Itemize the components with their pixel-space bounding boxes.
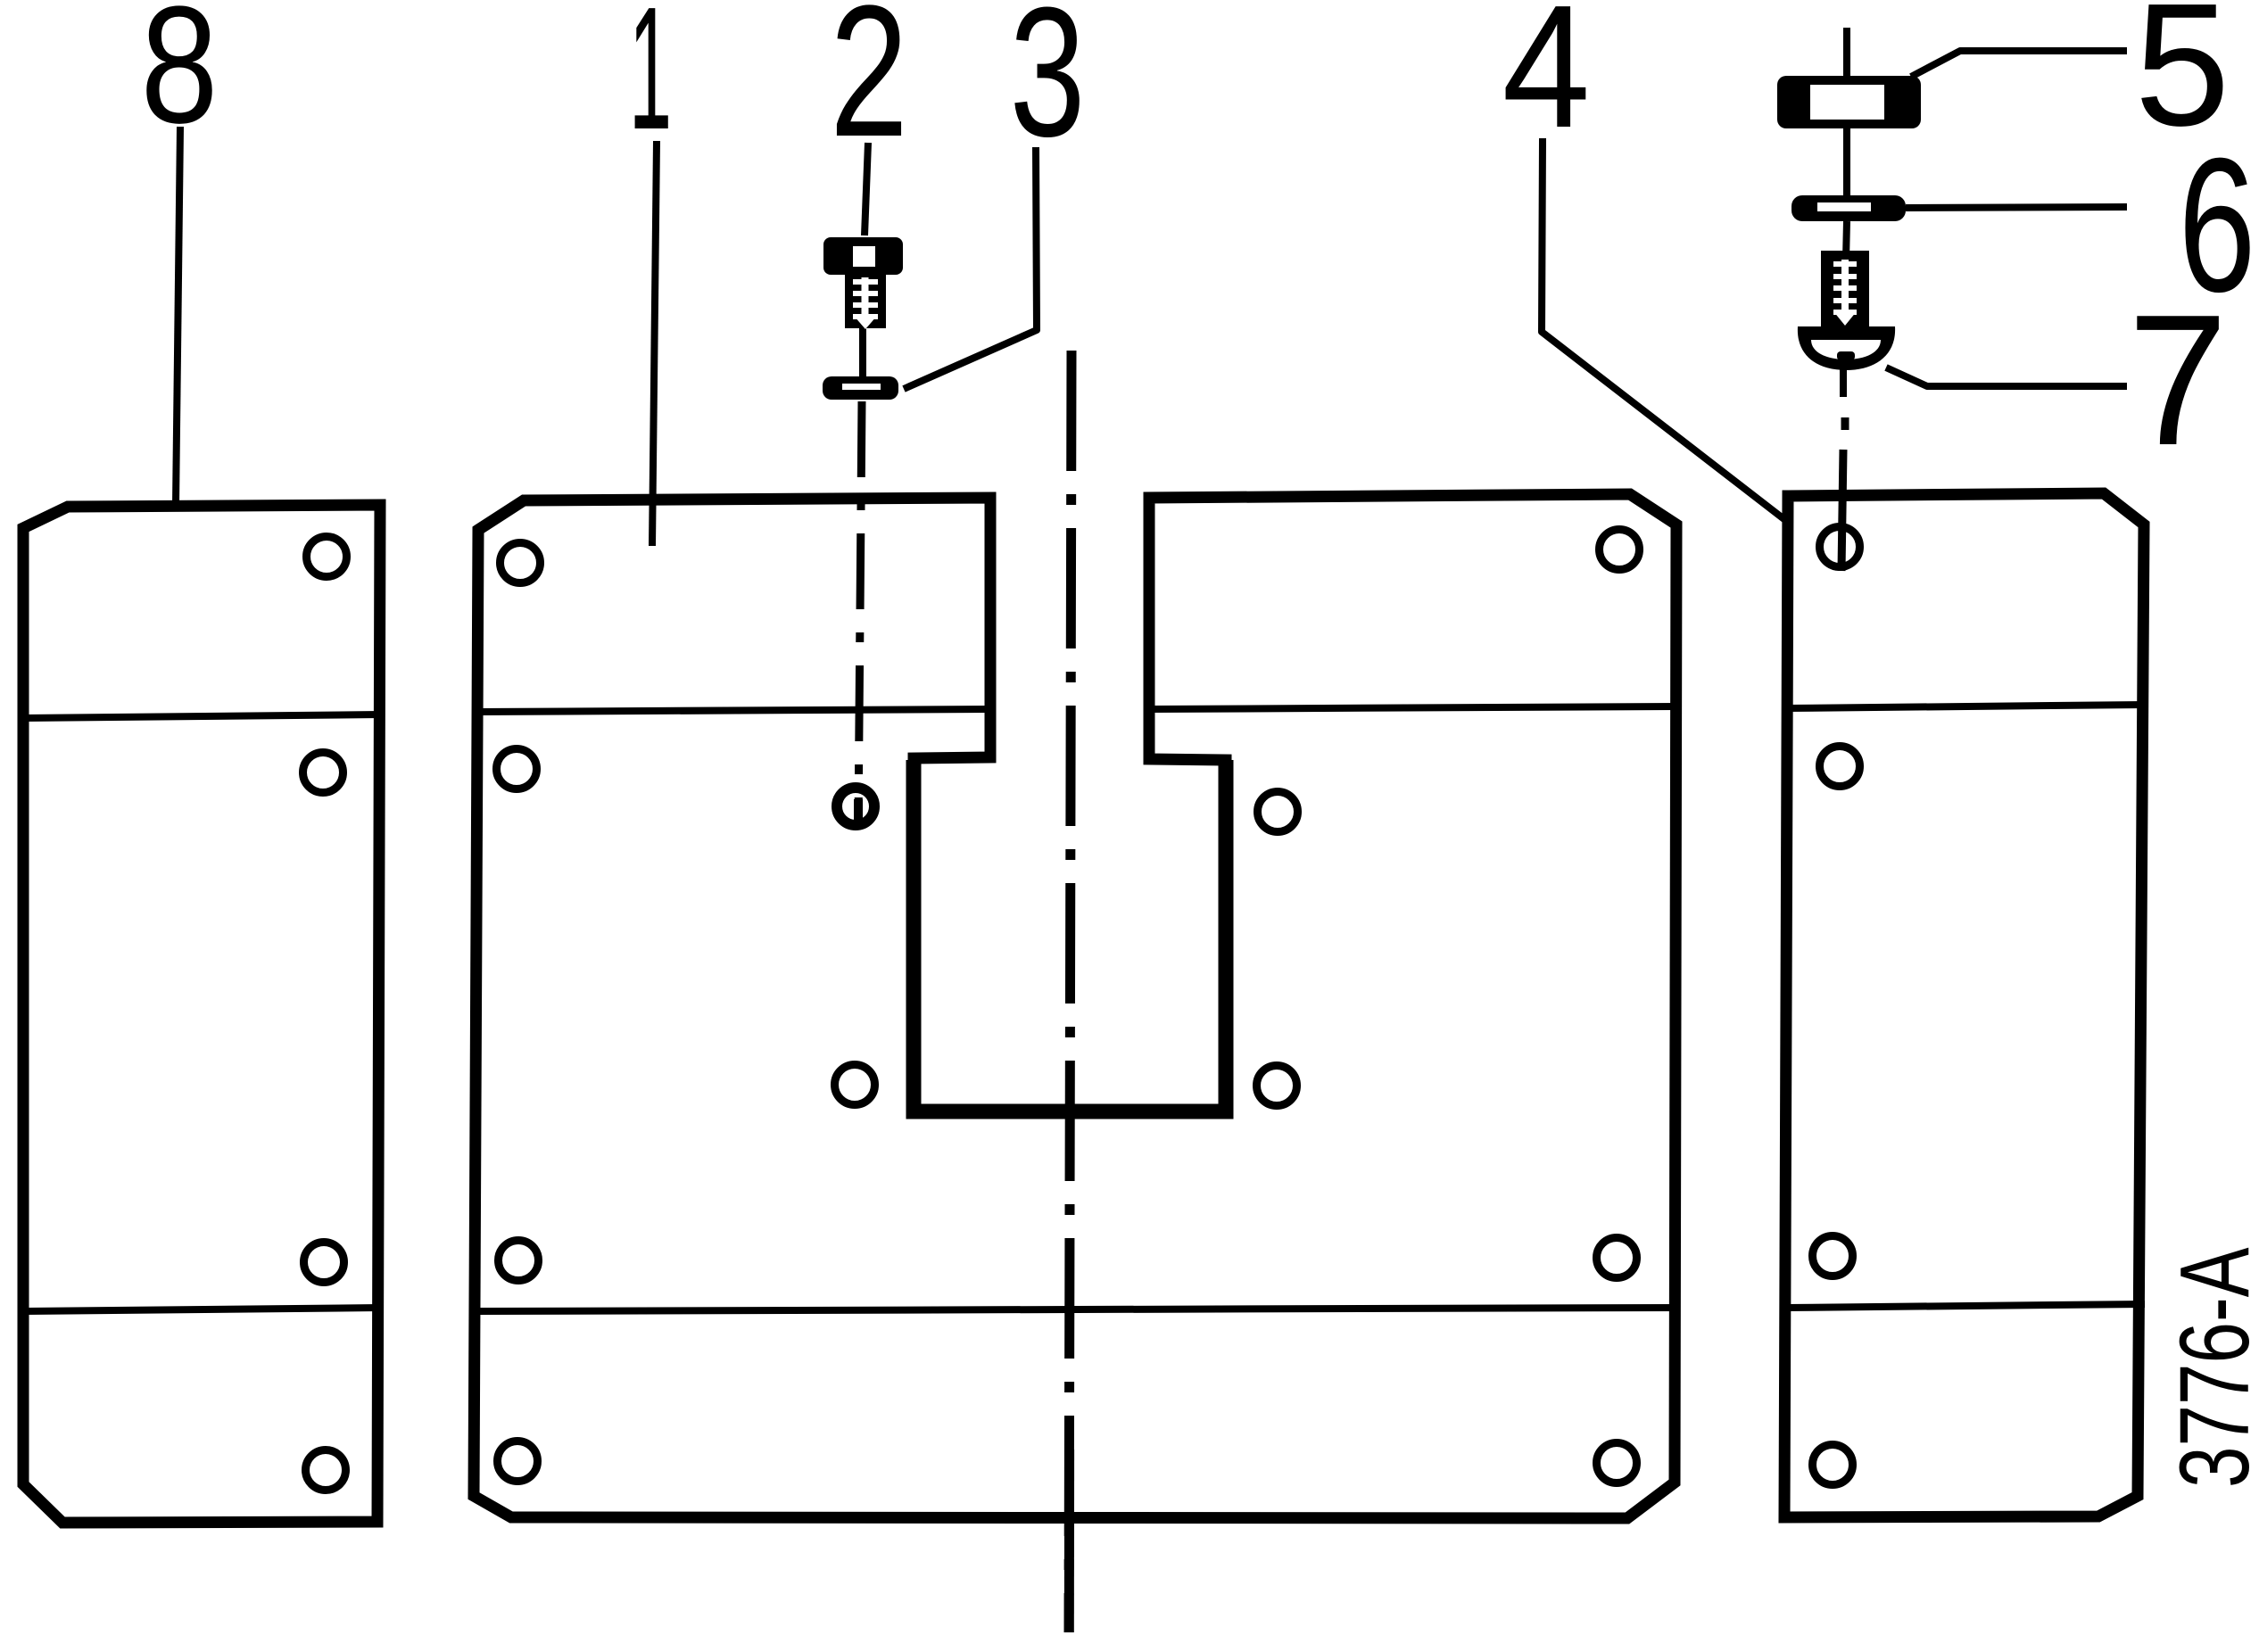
screw 7 axis dot: [1841, 417, 1849, 430]
screw 7 axis upper solid: [1843, 28, 1850, 76]
svg-text:3: 3: [1010, 0, 1086, 175]
washer 3: [823, 376, 898, 400]
svg-text:8: 8: [141, 0, 219, 158]
centre line (axis of symmetry): [1069, 351, 1072, 1632]
screw 7 axis nib below head: [1840, 368, 1847, 397]
plate 1 hole mid-left: [497, 749, 537, 789]
plate 1 (centre plate with keyhole slot) outline: [474, 494, 1676, 1518]
screw 2 shank: [845, 274, 886, 328]
plate 1 hole lower-left bottom: [498, 1441, 538, 1482]
plate 8 hole upper-middle: [303, 753, 343, 793]
plate 1 threaded hole slot mark: [854, 799, 863, 822]
screw 7 shank: [1821, 251, 1869, 326]
leader line for 7: [1886, 368, 2127, 386]
svg-text:1: 1: [629, 0, 672, 166]
plate 1 threaded hole for screw 2: [837, 788, 874, 825]
plate 4 hole lower-middle: [1813, 1236, 1853, 1276]
plate 1 hole below slot left: [835, 1065, 875, 1105]
svg-text:3776-A: 3776-A: [2160, 1247, 2259, 1488]
plate 1 lower bend line: [476, 1308, 1677, 1311]
screw 7 axis dash into hole: [1841, 450, 1843, 571]
plate 1 hole lower-right bottom: [1597, 1443, 1637, 1483]
screw 7 thread tip: [1833, 311, 1857, 326]
plate 4 hole upper-middle: [1820, 747, 1860, 787]
screw 2 thread marks: [862, 277, 869, 319]
leader line for 4: [1542, 138, 1785, 520]
screw 2 socket window: [853, 246, 875, 267]
nut 5: [1777, 76, 1921, 128]
plate 1 hole top-right: [1600, 530, 1640, 570]
plate 1 hole right of slot: [1258, 792, 1298, 832]
plate 8 hole bottom: [306, 1450, 346, 1491]
plate 8 upper bend line: [24, 714, 380, 718]
screw 7 thread marks: [1841, 260, 1849, 318]
svg-text:4: 4: [1502, 0, 1591, 164]
washer 6 slit: [1817, 202, 1871, 211]
leader line for 3: [904, 147, 1037, 389]
plate 4 hole bottom: [1813, 1445, 1853, 1485]
screw 2 axis solid between shank and washer: [859, 326, 866, 376]
plate 1 slot U re-stroke: [914, 760, 1226, 1111]
plate 4 upper bend line: [1786, 705, 2145, 708]
plate 1 hole lower-left upper: [499, 1241, 539, 1281]
plate 8 lower bend line: [24, 1308, 380, 1311]
plate 1 upper bend line right: [1149, 706, 1677, 709]
svg-text:7: 7: [2128, 277, 2228, 484]
screw 7 head axis bump: [1837, 351, 1855, 360]
screw 7 head inner white: [1811, 340, 1881, 359]
washer 6: [1791, 195, 1906, 221]
leader line for 2: [865, 143, 868, 235]
centre line bottom dash: [1064, 1450, 1074, 1632]
leader line for 6: [1906, 207, 2127, 208]
plate 8 hole top: [307, 537, 347, 577]
leader line for 5: [1911, 51, 2127, 77]
plate 1 hole lower-right upper: [1597, 1238, 1637, 1278]
screw 7 axis between washer and screw: [1846, 221, 1847, 260]
screw 7 head (dome): [1798, 326, 1895, 370]
plate 8 (left cover plate) outline: [23, 505, 380, 1523]
leader line for 1: [652, 141, 657, 546]
plate 1 hole below slot right: [1257, 1066, 1297, 1106]
leader line for 8: [176, 127, 180, 505]
screw 2 head: [823, 237, 903, 275]
nut 5 window: [1810, 85, 1884, 120]
svg-text:2: 2: [830, 0, 908, 176]
plate 8 hole lower-middle: [304, 1243, 344, 1283]
washer 3 slit: [842, 384, 881, 390]
plate 1 upper bend line left: [476, 709, 990, 712]
plate 1 hole top-left: [501, 543, 541, 583]
screw 2 thread tip: [854, 316, 877, 329]
screw 2 axis dash-dot: [858, 401, 862, 828]
plate 4 lower bend line: [1786, 1304, 2145, 1308]
plate 4 hole top: [1820, 527, 1860, 567]
screw 7 axis between nut and washer: [1843, 128, 1850, 195]
plate 4 (right cover plate) outline: [1784, 493, 2144, 1517]
